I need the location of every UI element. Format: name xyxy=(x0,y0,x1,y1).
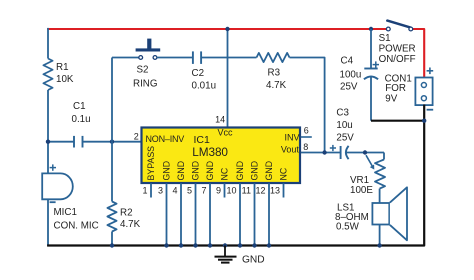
wire C4 to negative node xyxy=(370,77,372,121)
wire red rail right segment to CON1 xyxy=(413,29,425,78)
svg-text:9V: 9V xyxy=(385,94,397,105)
microphone MIC1 xyxy=(42,164,98,231)
svg-text:C4: C4 xyxy=(341,56,354,67)
node junction rail/C1 xyxy=(46,140,50,144)
wire VR1 top lead xyxy=(383,153,385,160)
wire left rail top xyxy=(47,28,49,59)
op-amp IC1 LM380 body xyxy=(142,128,301,184)
pin 5 GND xyxy=(187,161,201,248)
svg-text:1: 1 xyxy=(142,186,147,196)
wire red rail to C4 xyxy=(370,29,372,68)
wire red positive rail top xyxy=(47,28,386,30)
svg-text:C2: C2 xyxy=(192,68,205,79)
svg-text:GND: GND xyxy=(176,161,186,181)
wire negative C4 node to CON1 minus xyxy=(371,120,424,122)
svg-text:NC: NC xyxy=(220,167,230,180)
svg-text:R3: R3 xyxy=(268,68,281,79)
svg-text:ON/OFF: ON/OFF xyxy=(379,54,416,65)
wire S2 to C2 xyxy=(157,57,193,59)
svg-text:2: 2 xyxy=(134,132,139,142)
svg-text:10: 10 xyxy=(226,186,236,196)
svg-text:0.1u: 0.1u xyxy=(72,114,91,125)
node junction LS1/bus xyxy=(377,243,381,247)
wire C1 to IC pin 2 xyxy=(83,141,142,143)
node junction C3/VR1 wiper xyxy=(363,150,367,154)
svg-text:14: 14 xyxy=(215,115,225,125)
wire Vcc rail to pin 14 xyxy=(227,29,229,129)
switch S2 contact left xyxy=(139,56,143,60)
svg-text:Vcc: Vcc xyxy=(218,127,234,137)
svg-text:3: 3 xyxy=(158,186,163,196)
wire C2 to R3 (crosses Vcc rail) xyxy=(201,57,256,59)
svg-text:S1: S1 xyxy=(379,33,391,44)
resistor R2 xyxy=(107,202,140,232)
pin 7 GND xyxy=(201,161,215,248)
svg-text:4.7K: 4.7K xyxy=(120,219,141,230)
svg-text:8: 8 xyxy=(303,142,308,152)
svg-text:25V: 25V xyxy=(336,132,354,143)
wire CON1 minus down and ground bus xyxy=(47,105,424,246)
resistor R1 xyxy=(43,59,73,91)
svg-text:5: 5 xyxy=(187,186,192,196)
pin 11 GND xyxy=(242,161,260,248)
wire LS1 to ground bus xyxy=(379,225,381,246)
svg-text:CON. MIC: CON. MIC xyxy=(54,220,99,231)
potentiometer VR1 xyxy=(350,155,385,196)
node junction R2/bus xyxy=(110,243,114,247)
loudspeaker LS1 xyxy=(335,187,407,240)
capacitor C2 xyxy=(192,51,217,91)
svg-text:GND: GND xyxy=(235,161,245,181)
wire left rail to C1 xyxy=(48,141,74,143)
switch S2 pushbutton cap xyxy=(136,39,161,52)
svg-text:4: 4 xyxy=(172,186,177,196)
pin 13 NC xyxy=(270,167,289,197)
svg-text:RING: RING xyxy=(133,78,158,89)
switch S1 blade xyxy=(387,21,410,28)
pin 6 stub and label xyxy=(301,126,312,137)
wire to switch S2 xyxy=(112,57,139,59)
wire R3 to Vout node xyxy=(290,58,325,153)
svg-text:100u: 100u xyxy=(340,69,362,80)
wire left rail MIC1 to ground bus xyxy=(47,199,49,246)
pin 8 Vout wire and label xyxy=(301,142,341,153)
svg-text:FOR: FOR xyxy=(385,83,406,94)
svg-text:9: 9 xyxy=(216,186,221,196)
switch S2 contact right xyxy=(153,56,157,60)
svg-text:GND: GND xyxy=(250,161,260,181)
node junction C1/R2/S2/pin2 xyxy=(110,140,114,144)
capacitor C1 xyxy=(72,101,91,147)
svg-text:GND: GND xyxy=(162,161,172,181)
wire C3 to VR1 xyxy=(346,152,384,154)
svg-text:MIC1: MIC1 xyxy=(54,207,77,218)
svg-text:13: 13 xyxy=(270,186,280,196)
capacitor C4 (polarized) xyxy=(340,56,380,93)
svg-text:Vout: Vout xyxy=(281,144,300,154)
svg-text:R1: R1 xyxy=(56,62,69,73)
svg-text:4.7K: 4.7K xyxy=(266,80,287,91)
node junction Vout/R3 xyxy=(322,150,326,154)
svg-text:0.01u: 0.01u xyxy=(192,80,217,91)
node junction CON1 minus xyxy=(422,119,426,123)
capacitor C3 (polarized) xyxy=(330,107,354,159)
wire left rail R1 to MIC1 xyxy=(47,90,49,174)
svg-text:C3: C3 xyxy=(336,107,349,118)
node junction red rail/C4/S1 xyxy=(369,27,373,31)
wire S2 branch vertical xyxy=(111,58,113,142)
node junction ground stem xyxy=(223,243,227,247)
svg-text:100E: 100E xyxy=(350,185,373,196)
svg-text:BYPASS: BYPASS xyxy=(146,146,156,181)
svg-text:R2: R2 xyxy=(120,208,133,219)
svg-text:NC: NC xyxy=(279,167,289,180)
resistor R3 xyxy=(257,53,290,91)
label S2 RING xyxy=(133,64,158,89)
svg-text:0.5W: 0.5W xyxy=(336,222,360,233)
svg-text:11: 11 xyxy=(242,186,251,196)
svg-text:INV: INV xyxy=(285,133,300,143)
pin 10 GND xyxy=(226,161,245,248)
svg-text:S2: S2 xyxy=(137,64,149,75)
switch S1 contact right xyxy=(409,27,413,31)
svg-text:GND: GND xyxy=(191,161,201,181)
svg-text:10K: 10K xyxy=(56,74,74,85)
svg-text:6: 6 xyxy=(304,126,309,136)
wire junction to R2 xyxy=(111,142,113,202)
switch S1 contact left xyxy=(386,27,390,31)
node junction red rail/Vcc xyxy=(225,27,229,31)
label S1 POWER ON/OFF xyxy=(379,33,416,65)
svg-text:12: 12 xyxy=(255,186,265,196)
svg-text:25V: 25V xyxy=(340,81,358,92)
ground symbol xyxy=(215,246,237,263)
svg-text:C1: C1 xyxy=(73,101,86,112)
pin 9 NC xyxy=(216,167,230,197)
svg-text:GND: GND xyxy=(205,161,215,181)
pin 3 GND xyxy=(158,161,172,248)
wire R2 to ground bus xyxy=(111,232,113,246)
svg-text:NON–INV: NON–INV xyxy=(146,134,185,144)
connector CON1 battery 9V xyxy=(385,68,434,110)
svg-text:LM380: LM380 xyxy=(192,145,228,159)
svg-text:10u: 10u xyxy=(336,120,352,131)
wire VR1 to LS1 xyxy=(379,189,381,203)
svg-text:GND: GND xyxy=(264,161,274,181)
pin 12 GND xyxy=(255,161,274,248)
pin 1 BYPASS xyxy=(142,146,156,198)
svg-text:7: 7 xyxy=(201,186,206,196)
pin 4 GND xyxy=(172,161,186,248)
svg-text:GND: GND xyxy=(242,254,265,265)
